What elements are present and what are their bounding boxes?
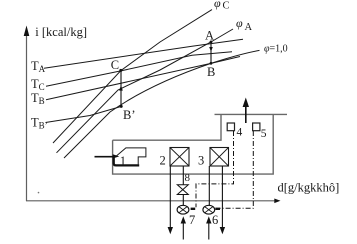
isotherm TA [44,39,243,68]
svg-text:B’: B’ [123,108,136,122]
sensor 4 [227,123,234,131]
coil 2 supply pipe [182,166,184,185]
coil 2 return pipe with down arrow [168,166,173,234]
inlet arrow [95,154,120,158]
point B' [120,105,123,108]
curve phi=1.0 (through B' and B) [64,50,260,158]
control line sensor4 to pump7 (dash-dot) [196,131,234,207]
svg-text:1: 1 [120,154,126,168]
svg-text:B: B [207,65,215,79]
coil 3 supply pipe [208,166,210,206]
coil 2 [170,148,189,167]
svg-text:7: 7 [189,213,195,227]
svg-text:i [kcal/kg]: i [kcal/kg] [35,25,87,39]
fan 1 body [117,148,146,165]
coil 3 [210,148,229,167]
svg-text:φ=1,0: φ=1,0 [264,44,288,55]
isotherm TB' [46,106,122,122]
pump 7 bold port bar [191,208,196,210]
svg-text:A: A [245,22,253,33]
process line B' to C with up arrow [119,70,123,106]
point B [210,62,213,65]
pump 6 (circle with cross) [203,205,215,214]
svg-text:2: 2 [160,154,166,168]
svg-text:C: C [111,58,119,72]
sensor 5 [253,123,260,131]
svg-text:4: 4 [237,127,243,139]
point A [210,41,213,44]
d axis (horizontal) [26,199,281,204]
stray dot [38,192,40,194]
fan 1 scroll (bold) [114,157,140,165]
curve phiA [57,29,234,153]
svg-text:C: C [223,1,230,12]
supply up arrow into pump 7 [181,216,186,239]
isotherm TB [46,57,240,100]
process line A to B with down arrow [209,42,213,63]
svg-text:3: 3 [198,154,204,168]
control line sensor5 to pump6 (dash-dot) [220,131,254,208]
AHU duct outline [113,114,287,174]
exhaust stack arrow [243,98,249,124]
i axis (vertical) [24,26,30,202]
point C [119,69,122,72]
isotherm TC (through C and B) [46,52,232,87]
svg-text:5: 5 [261,128,267,140]
svg-text:6: 6 [212,213,218,227]
svg-text:d[g/kgkkhô]: d[g/kgkkhô] [278,180,340,194]
pipe valve8 to pump7 [182,195,184,206]
svg-text:φ: φ [236,16,243,30]
coil 3 return pipe with down arrow [220,166,225,234]
svg-text:8: 8 [185,172,191,184]
svg-text:φ: φ [214,0,221,10]
pump 7 (circle with cross) [177,205,189,214]
pump 6 bold port bar [215,208,220,210]
svg-text:A: A [205,29,214,43]
valve 8 [177,185,188,195]
curve phiC [53,10,212,143]
supply up arrow into pump 6 [206,216,211,239]
